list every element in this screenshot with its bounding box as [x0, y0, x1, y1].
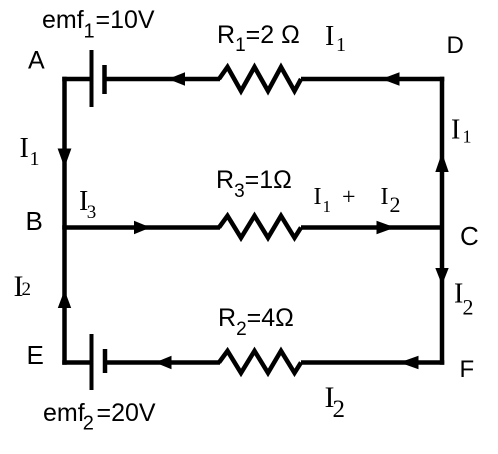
- wire R1 to D (top right): [301, 77, 444, 82]
- wire R2 to F (bottom right): [301, 360, 444, 365]
- svg-text:I: I: [451, 115, 460, 146]
- svg-text:I: I: [381, 184, 389, 210]
- arrow up on left wire, current I2: [58, 290, 71, 308]
- svg-text:1: 1: [336, 34, 346, 56]
- wire R3 to C (middle right): [301, 225, 444, 230]
- battery emf2 long plate: [90, 334, 94, 390]
- resistor R3 zigzag: [219, 216, 301, 238]
- svg-text:1: 1: [30, 148, 40, 170]
- resistor R1 zigzag: [219, 67, 301, 91]
- svg-text:E: E: [27, 340, 44, 370]
- arrow down on right wire, current I2: [435, 268, 448, 285]
- svg-text:=20V: =20V: [97, 399, 156, 427]
- svg-text:2: 2: [83, 413, 94, 435]
- svg-text:B: B: [26, 206, 43, 236]
- arrow left on bottom wire (F side), current I2: [400, 356, 419, 369]
- wire battery emf1 to R1 (top): [105, 77, 221, 82]
- wire D-C-F (right vertical): [440, 77, 445, 365]
- resistor R2 zigzag: [219, 351, 301, 373]
- svg-text:emf: emf: [42, 6, 84, 34]
- svg-text:I: I: [20, 133, 29, 164]
- arrow down on left wire, current I1: [58, 149, 72, 168]
- wire A-B-E (left vertical): [62, 77, 67, 365]
- arrow left on top wire (D side), current I1: [382, 72, 400, 85]
- svg-text:2: 2: [463, 295, 474, 320]
- svg-text:1: 1: [84, 21, 95, 43]
- battery emf1 long plate: [90, 50, 94, 107]
- svg-text:2: 2: [390, 192, 401, 217]
- svg-text:2: 2: [333, 396, 346, 423]
- wire battery emf2 to R2 (bottom): [105, 360, 220, 365]
- svg-text:1: 1: [463, 127, 472, 147]
- svg-text:F: F: [460, 356, 475, 383]
- battery emf2 short plate: [103, 349, 108, 373]
- arrow right on middle wire (B side), current I3: [134, 221, 151, 234]
- battery emf1 short plate: [102, 65, 107, 94]
- wire A to battery emf1 (top left): [62, 77, 90, 82]
- svg-text:=10V: =10V: [96, 6, 155, 34]
- svg-text:A: A: [28, 47, 45, 75]
- svg-text:emf: emf: [43, 399, 85, 427]
- arrow right on middle wire (C side), current I1+I2: [377, 221, 396, 234]
- svg-text:+: +: [342, 185, 356, 211]
- wire E to battery emf2 (bottom left): [62, 360, 90, 365]
- svg-text:D: D: [447, 32, 464, 59]
- svg-text:2: 2: [22, 279, 32, 300]
- wire B to R3 (middle): [62, 225, 220, 230]
- arrow left on bottom wire (battery side), current I2: [155, 356, 172, 369]
- svg-text:C: C: [460, 221, 479, 251]
- arrow left on top wire (battery side), current I1: [168, 72, 185, 85]
- svg-text:1: 1: [323, 197, 332, 216]
- svg-text:3: 3: [87, 202, 97, 223]
- svg-text:I: I: [314, 184, 322, 210]
- arrow up on right wire, current I1: [435, 153, 448, 173]
- svg-text:I: I: [325, 21, 334, 52]
